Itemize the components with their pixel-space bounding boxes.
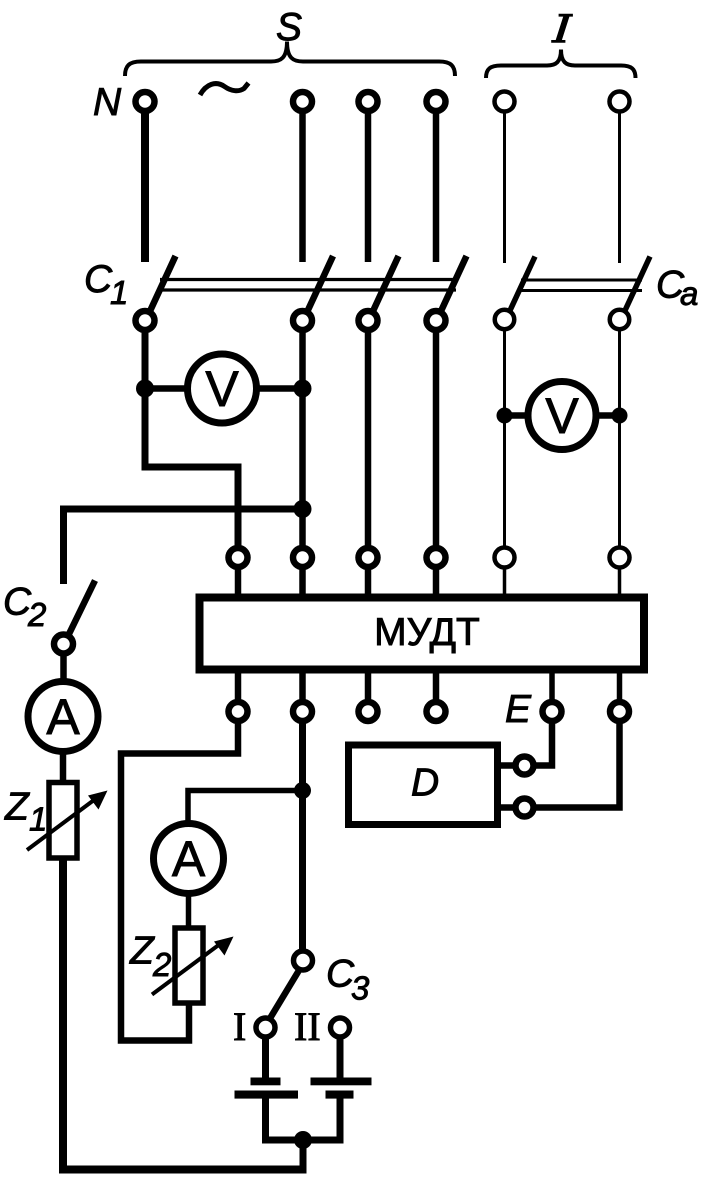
svg-text:D: D [411,762,439,805]
svg-text:3: 3 [351,970,370,1007]
svg-text:2: 2 [27,596,46,633]
svg-text:E: E [505,688,532,731]
svg-text:S: S [276,6,302,49]
svg-text:N: N [93,81,122,124]
svg-text:1: 1 [110,274,128,311]
svg-text:Z: Z [129,930,155,973]
svg-text:Z: Z [4,786,30,829]
svg-text:II: II [294,1004,321,1049]
svg-text:V: V [205,361,239,417]
svg-text:C: C [84,258,113,301]
svg-text:I: I [233,1004,246,1049]
svg-text:A: A [46,689,80,745]
svg-text:1: 1 [29,801,47,838]
svg-text:A: A [172,831,206,887]
svg-text:V: V [545,388,579,444]
svg-text:МУДТ: МУДТ [374,611,480,654]
svg-text:2: 2 [152,946,171,983]
svg-text:a: a [680,275,698,312]
